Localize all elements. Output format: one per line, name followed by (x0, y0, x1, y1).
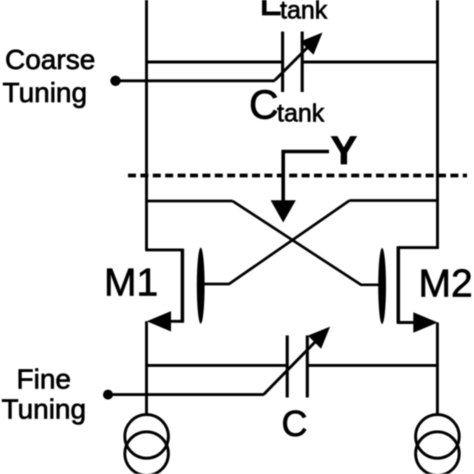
capacitor C_tank left plate (281, 32, 284, 93)
svg-text:tank: tank (277, 100, 325, 128)
svg-text:M1: M1 (104, 262, 158, 305)
svg-text:Y: Y (331, 129, 358, 173)
capacitor C left plate (286, 335, 289, 397)
current source I1 upper circle (125, 415, 169, 459)
Y arrow elbow wire (283, 152, 329, 203)
svg-text:C: C (282, 403, 308, 444)
label Coarse Tuning (3, 44, 96, 108)
wire coarse tuning y=80.8 (111, 79, 275, 82)
Y arrowhead (271, 200, 296, 222)
transistor M2 drain wire (398, 246, 438, 249)
wire fine tuning y=394.6 (106, 393, 264, 396)
label Fine Tuning (2, 364, 87, 425)
transistor M1 drain wire (145, 248, 182, 251)
capacitor C_tank right plate (301, 32, 304, 93)
wire tank top right segment y=62 (302, 61, 439, 64)
capacitor C right plate (306, 335, 309, 397)
svg-text:L: L (259, 0, 282, 24)
svg-text:tank: tank (280, 0, 328, 24)
svg-text:Fine: Fine (17, 364, 71, 395)
transistor M2 source arrowhead (413, 312, 437, 333)
capacitor C_tank varactor arrow (275, 33, 323, 81)
transistor M2 gate bar (ellipse) (378, 248, 386, 324)
svg-text:C: C (249, 82, 279, 128)
wire M2 gate lead (361, 283, 379, 286)
wire cross-couple left horizontal y=201 (145, 200, 232, 203)
wire tank top left segment y=62 (145, 61, 282, 64)
wire fine tank right segment y=365.4 (307, 364, 438, 367)
wire cross-couple right horizontal y=200.5 (350, 199, 439, 202)
transistor M1 gate bar (ellipse) (197, 248, 205, 324)
wire right rail top (x=437.5, y 0-248) (436, 0, 439, 249)
node coarse tuning input dot (110, 76, 120, 86)
current source I2 lower circle (416, 432, 460, 474)
dashed divider line y=175.5 (128, 174, 467, 178)
wire cross-couple diagonal right-node to M1 gate (229, 201, 350, 285)
svg-text:M2: M2 (419, 263, 473, 306)
wire left rail top (x=146.5, y 0-250) (145, 0, 148, 250)
label C_tank (249, 82, 325, 128)
wire cross-couple diagonal left-node to M2 gate (233, 201, 362, 285)
svg-text:Tuning: Tuning (2, 394, 87, 425)
current source I1 lower circle (125, 432, 169, 474)
wire right rail lower (M2 source to current source) (436, 323, 439, 416)
wire M1 gate lead (204, 283, 230, 286)
transistor M2 source wire (397, 321, 434, 324)
current source I2 upper circle (416, 415, 460, 459)
svg-text:Coarse: Coarse (5, 44, 95, 75)
label L_tank (259, 0, 328, 24)
transistor M1 source arrowhead (147, 311, 171, 331)
transistor M2 channel bar (397, 246, 401, 323)
node fine tuning input dot (103, 390, 113, 400)
wire fine tank left segment y=365.4 (145, 364, 287, 367)
capacitor C varactor arrow (264, 327, 331, 395)
wire left rail lower (M1 source to current source) (145, 321, 148, 415)
transistor M1 source wire (150, 320, 184, 323)
svg-text:Tuning: Tuning (3, 77, 88, 108)
transistor M1 channel bar (181, 249, 185, 323)
